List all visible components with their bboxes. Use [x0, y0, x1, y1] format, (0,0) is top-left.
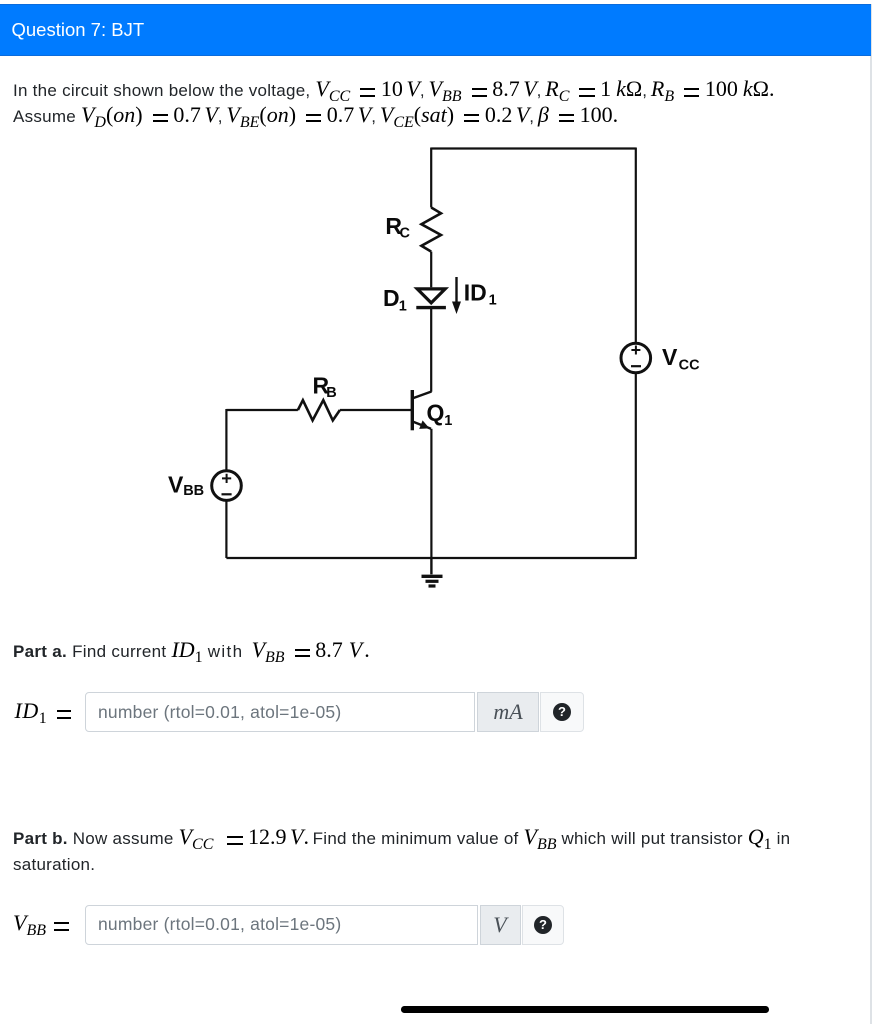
svg-text:V: V	[168, 472, 184, 498]
wire emitter vertical	[430, 429, 432, 558]
part a prompt	[13, 637, 370, 665]
wire top rail	[431, 147, 636, 149]
current arrow ID1	[452, 277, 461, 314]
resistor RC	[421, 208, 441, 252]
voltage source VCC	[621, 343, 651, 373]
svg-text:Q: Q	[427, 400, 445, 426]
diode D1	[416, 289, 446, 308]
svg-text:D: D	[383, 285, 400, 311]
wire bottom rail	[226, 557, 635, 559]
svg-text:1: 1	[489, 293, 497, 309]
bottom black divider bar	[401, 1006, 769, 1013]
wire resistor RB to base	[340, 409, 411, 411]
part b prompt	[13, 824, 790, 878]
wire left vertical upper	[225, 409, 227, 470]
svg-text:V: V	[662, 344, 678, 370]
svg-text:B: B	[326, 385, 336, 401]
svg-text:C: C	[400, 225, 411, 241]
part b answer label	[13, 910, 69, 936]
wire diode to transistor collector	[430, 308, 432, 392]
card right border	[870, 4, 872, 1024]
wire right vertical upper	[635, 148, 637, 344]
wire base	[226, 409, 298, 411]
part b input group	[85, 905, 564, 945]
svg-text:1: 1	[444, 413, 452, 429]
header bar	[0, 4, 871, 56]
wire collector top vertical	[430, 148, 432, 208]
wire right vertical lower	[635, 373, 637, 559]
transistor Q1	[412, 390, 431, 430]
wire left vertical lower	[225, 501, 227, 558]
svg-text:ID: ID	[464, 279, 487, 305]
part a input group	[85, 692, 584, 732]
svg-text:CC: CC	[679, 358, 700, 374]
ground	[422, 558, 443, 586]
resistor RB	[298, 400, 340, 420]
paragraph	[13, 77, 774, 129]
svg-text:BB: BB	[183, 483, 204, 499]
svg-text:1: 1	[399, 298, 407, 314]
part a answer label	[15, 698, 72, 724]
wire resistor to diode	[430, 252, 432, 288]
voltage source VBB	[212, 471, 242, 501]
